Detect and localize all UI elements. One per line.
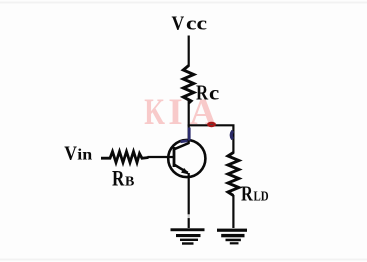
svg-text:in: in (77, 145, 93, 163)
watermark KIA (144, 91, 216, 133)
label Vcc (172, 12, 208, 34)
resistor RLD (228, 153, 239, 196)
wire collector node to RLD branch (188, 124, 235, 126)
label Rc (196, 82, 220, 105)
wire RLD branch down (232, 125, 234, 154)
resistor RB (101, 152, 149, 163)
top border band (0, 2, 367, 4)
transistor Q1 emitter arrowhead (181, 168, 190, 175)
wire Rc to collector node (188, 101, 190, 144)
transistor Q1 collector stroke (174, 143, 189, 149)
faint break on emitter wire (187, 214, 190, 218)
label Vin (64, 143, 93, 165)
wire Vcc to Rc (188, 36, 190, 67)
blue mark on collector wire (181, 128, 190, 142)
label RLD (241, 183, 269, 206)
transistor Q1 emitter stroke (174, 165, 188, 173)
wire RLD to ground (232, 195, 234, 228)
svg-text:R: R (112, 167, 125, 192)
svg-text:V: V (172, 12, 185, 34)
svg-text:V: V (64, 143, 77, 165)
blue mark on RLD wire (231, 131, 233, 139)
transistor Q1 circle (168, 140, 205, 177)
svg-text:LD: LD (254, 188, 269, 204)
svg-text:cc: cc (186, 13, 207, 34)
wire emitter to ground (188, 173, 190, 228)
red watermark ring (208, 123, 215, 126)
svg-text:B: B (125, 175, 134, 190)
svg-text:I: I (168, 92, 182, 133)
svg-text:K: K (144, 91, 165, 132)
svg-text:R: R (241, 183, 253, 206)
bottom border band (0, 259, 367, 261)
resistor Rc (183, 66, 193, 104)
svg-text:c: c (209, 82, 220, 104)
transistor Q1 base bar (173, 147, 176, 167)
ground right (217, 229, 247, 245)
svg-text:R: R (196, 82, 208, 105)
ground left (171, 228, 205, 244)
label RB (112, 167, 134, 192)
wire RB to base (148, 156, 174, 158)
